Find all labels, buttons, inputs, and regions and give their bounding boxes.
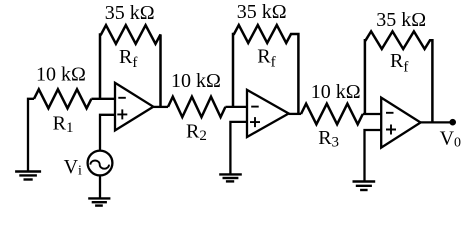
- wire: R1 to op-amp U1 inverting input (node A): [91, 98, 115, 100]
- svg-text:R3: R3: [318, 127, 339, 151]
- svg-text:R1: R1: [53, 113, 74, 137]
- svg-text:Rf: Rf: [119, 46, 137, 71]
- U2 plus pin mark: [250, 117, 260, 127]
- source Vi (AC): [88, 151, 113, 176]
- U3 minus pin mark: [386, 112, 394, 114]
- op-amp U2: [247, 90, 289, 137]
- svg-text:35 kΩ: 35 kΩ: [237, 1, 287, 23]
- op-amp U1: [115, 83, 153, 131]
- svg-text:Rf: Rf: [257, 45, 275, 70]
- U1 plus pin mark: [117, 109, 127, 119]
- svg-text:35 kΩ: 35 kΩ: [105, 2, 155, 24]
- resistor Rf (stage 3 feedback) with wires from node C to U3 output: [365, 31, 433, 122]
- U2 minus pin mark: [251, 106, 259, 108]
- op-amp U3: [381, 98, 420, 148]
- ground G3 (below U2): [219, 174, 242, 181]
- wire: U3 output to node V0: [421, 121, 453, 123]
- wire: R3 to op-amp U3 inverting input (node C): [363, 113, 381, 115]
- ground G1 (left of R1): [15, 172, 41, 180]
- svg-text:35 kΩ: 35 kΩ: [376, 9, 426, 31]
- sine mark inside Vi: [90, 161, 109, 169]
- svg-text:Rf: Rf: [390, 50, 408, 75]
- svg-text:10 kΩ: 10 kΩ: [36, 64, 86, 86]
- U3 plus pin mark: [386, 125, 396, 135]
- U1 minus pin mark: [118, 97, 126, 99]
- wire: U1 output to R2: [153, 106, 168, 108]
- svg-text:Vi: Vi: [64, 156, 82, 179]
- svg-text:10 kΩ: 10 kΩ: [311, 81, 361, 103]
- ground G2 (below Vi): [88, 198, 110, 205]
- resistor R3: [301, 104, 363, 125]
- wire: U3 non-inverting input to ground: [365, 130, 382, 181]
- wire: R1 left lead down to ground: [28, 99, 34, 172]
- svg-text:V0: V0: [440, 128, 461, 151]
- resistor R1: [34, 89, 91, 108]
- wire: U2 output to R3: [289, 113, 301, 115]
- svg-text:10 kΩ: 10 kΩ: [171, 70, 221, 92]
- wire: U1 non-inverting input to source Vi: [100, 115, 115, 151]
- resistor R2: [168, 97, 225, 117]
- wire: R2 to op-amp U2 inverting input (node B): [225, 106, 247, 108]
- ground G4 (below U3): [353, 182, 376, 191]
- wire: U2 non-inverting input to ground: [230, 122, 247, 174]
- resistor Rf (stage 1 feedback) with wires from node A to U1 output: [100, 25, 161, 107]
- resistor Rf (stage 2 feedback) with wires from node B to U2 output: [233, 25, 298, 113]
- svg-text:R2: R2: [186, 120, 207, 144]
- wire: Vi to ground: [99, 175, 101, 198]
- node V0 (output terminal dot): [449, 119, 456, 126]
